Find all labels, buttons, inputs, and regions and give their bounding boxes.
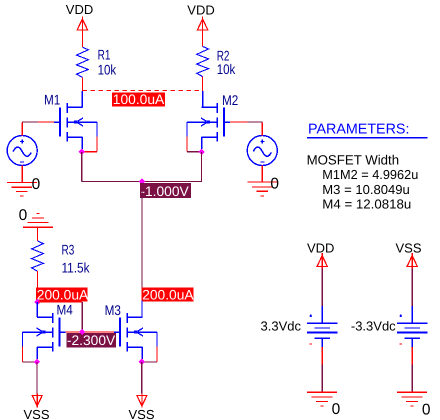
wire M4 drain connect: [36, 302, 38, 317]
svg-text:M3 = 10.8049u: M3 = 10.8049u: [322, 182, 410, 197]
svg-text:M4 = 12.0818u: M4 = 12.0818u: [322, 196, 411, 211]
wire M3 body down red: [156, 346, 158, 362]
junction M1 source: [79, 149, 85, 155]
wire M1 gate maroon segment: [22, 121, 38, 123]
battery V2: [397, 306, 428, 347]
svg-text:0: 0: [270, 176, 279, 193]
svg-text:MOSFET Width: MOSFET Width: [307, 153, 400, 168]
wire gate bias right red: [82, 331, 114, 333]
wire V1 bottom maroon: [321, 364, 323, 392]
transistor M4: [23, 313, 66, 352]
wire source bottom to ground: [261, 166, 263, 183]
wire M4 body down red: [22, 346, 24, 362]
wire M2 gate maroon segment: [248, 121, 263, 123]
transistor M2: [187, 103, 230, 142]
svg-text:10k: 10k: [217, 61, 236, 77]
svg-text:VSS: VSS: [129, 407, 155, 420]
svg-text:R3: R3: [62, 241, 75, 257]
voltage label -2.300V: [66, 333, 116, 348]
power symbol VSS (below M4): [32, 394, 42, 408]
svg-text:-1.000V: -1.000V: [140, 184, 189, 199]
wire M1 body down red: [96, 136, 98, 151]
power symbol VSS arrow (battery V2): [407, 253, 417, 269]
wire M1 body corner red: [84, 151, 97, 153]
svg-text:-2.300V: -2.300V: [67, 333, 116, 348]
wire M1 drain stub connect: [81, 91, 83, 104]
svg-text:100.0uA: 100.0uA: [113, 92, 165, 107]
wire source top to gate wire: [261, 123, 263, 136]
ground 0 (battery V1): [307, 392, 337, 406]
wire M1 drain vertical: [81, 91, 83, 107]
svg-text:VDD: VDD: [187, 2, 214, 17]
wire M3 source down: [141, 347, 143, 359]
svg-text:0: 0: [32, 176, 41, 193]
wire V2 bottom red: [411, 347, 413, 364]
svg-text:PARAMETERS:: PARAMETERS:: [308, 121, 409, 137]
wire M4 body corner maroon: [23, 361, 37, 363]
wire V2 top maroon: [411, 269, 413, 307]
svg-text:M3: M3: [105, 302, 121, 318]
wire M1 body down blue: [96, 122, 98, 136]
current probe dashed line: [82, 90, 202, 92]
wire tail right vertical: [201, 152, 203, 182]
wire M2 drain vertical: [202, 91, 204, 107]
heading underline: [307, 137, 427, 139]
wire M2 body corner maroon: [187, 151, 202, 153]
svg-text:M4: M4: [57, 301, 73, 317]
svg-text:0: 0: [422, 401, 431, 418]
junction gate bias node: [79, 329, 85, 335]
wire R1 to M1 drain node: [81, 77, 83, 91]
wire M3 body down blue: [156, 332, 158, 346]
wire V2 bottom maroon: [411, 364, 413, 392]
wire M2 source down: [201, 137, 203, 149]
wire gate bias vertical maroon: [81, 302, 83, 332]
svg-text:0: 0: [332, 401, 341, 418]
battery V1: [307, 306, 338, 347]
wire tail horizontal bus: [82, 181, 203, 183]
svg-text:-3.3Vdc: -3.3Vdc: [351, 318, 396, 333]
svg-text:VSS: VSS: [24, 407, 50, 420]
svg-text:200.0uA: 200.0uA: [37, 287, 89, 302]
ground 0 (left source): [7, 182, 37, 196]
wire source bottom to ground: [21, 166, 23, 183]
svg-text:0: 0: [19, 207, 28, 224]
wire M2 body down red: [186, 136, 188, 151]
wire source top to gate wire: [21, 123, 23, 136]
wire ground to R3: [37, 227, 39, 241]
svg-text:M1: M1: [44, 92, 60, 108]
wire R2 to M2 drain node: [202, 77, 204, 92]
resistor R3: [32, 241, 44, 271]
power symbol VDD (top left): [77, 17, 87, 33]
wire tail down to mirror: [141, 185, 143, 301]
wire VDD2 to R2: [202, 32, 204, 46]
wire VDD1 to R1: [81, 32, 83, 47]
wire M3 body corner maroon: [142, 361, 157, 363]
ground 0 flipped (above R3): [23, 213, 53, 227]
svg-text:R1: R1: [98, 47, 111, 63]
wire gate bias left red: [66, 331, 83, 333]
resistor R1: [77, 47, 89, 77]
junction M3 source: [139, 359, 145, 365]
wire M4 source to VSS: [36, 362, 38, 394]
power symbol VDD (battery V1): [317, 253, 327, 269]
svg-text:3.3Vdc: 3.3Vdc: [261, 318, 302, 333]
wire M1 source down: [81, 137, 83, 149]
junction R3/M4 drain node: [34, 299, 40, 305]
wire node to gate bias horizontal: [38, 301, 83, 303]
wire tail left vertical: [81, 152, 83, 182]
junction M2 source: [198, 149, 204, 155]
junction tail center: [139, 178, 145, 184]
svg-text:VDD: VDD: [307, 241, 334, 256]
svg-text:M1M2 = 4.9962u: M1M2 = 4.9962u: [322, 167, 418, 182]
wire M2 body down blue: [186, 122, 188, 136]
junction M4 source: [34, 359, 40, 365]
power symbol VSS (below M3): [137, 394, 147, 408]
svg-text:10k: 10k: [98, 62, 117, 78]
wire M3 drain vertical: [141, 301, 143, 318]
svg-text:VDD: VDD: [66, 2, 93, 17]
wire M3 source to VSS: [141, 362, 143, 394]
wire R3 to node: [37, 271, 39, 302]
wire M4 body down blue: [22, 332, 24, 346]
current label 200.0uA (left): [36, 287, 89, 302]
source Vin- (right sine source): [247, 136, 277, 166]
wire V1 bottom red: [321, 347, 323, 364]
svg-text:200.0uA: 200.0uA: [142, 287, 194, 302]
wire M2 gate red segment: [230, 121, 248, 123]
source Vin+ (left sine source): [7, 136, 37, 166]
svg-text:11.5k: 11.5k: [62, 260, 91, 276]
ground 0 (right source): [247, 182, 277, 196]
wire V1 top maroon: [321, 269, 323, 307]
current label 100.0uA: [112, 92, 165, 107]
transistor M3: [114, 313, 157, 352]
svg-text:VSS: VSS: [396, 241, 422, 256]
transistor M1: [54, 103, 97, 142]
ground 0 (battery V2): [397, 392, 427, 406]
wire M4 source down: [36, 347, 38, 359]
svg-text:M2: M2: [222, 92, 238, 108]
resistor R2: [197, 46, 209, 76]
current label 200.0uA (right): [142, 287, 195, 302]
wire M1 gate red segment: [38, 121, 54, 123]
power symbol VDD (top right): [197, 17, 207, 33]
voltage label -1.000V: [140, 183, 191, 199]
